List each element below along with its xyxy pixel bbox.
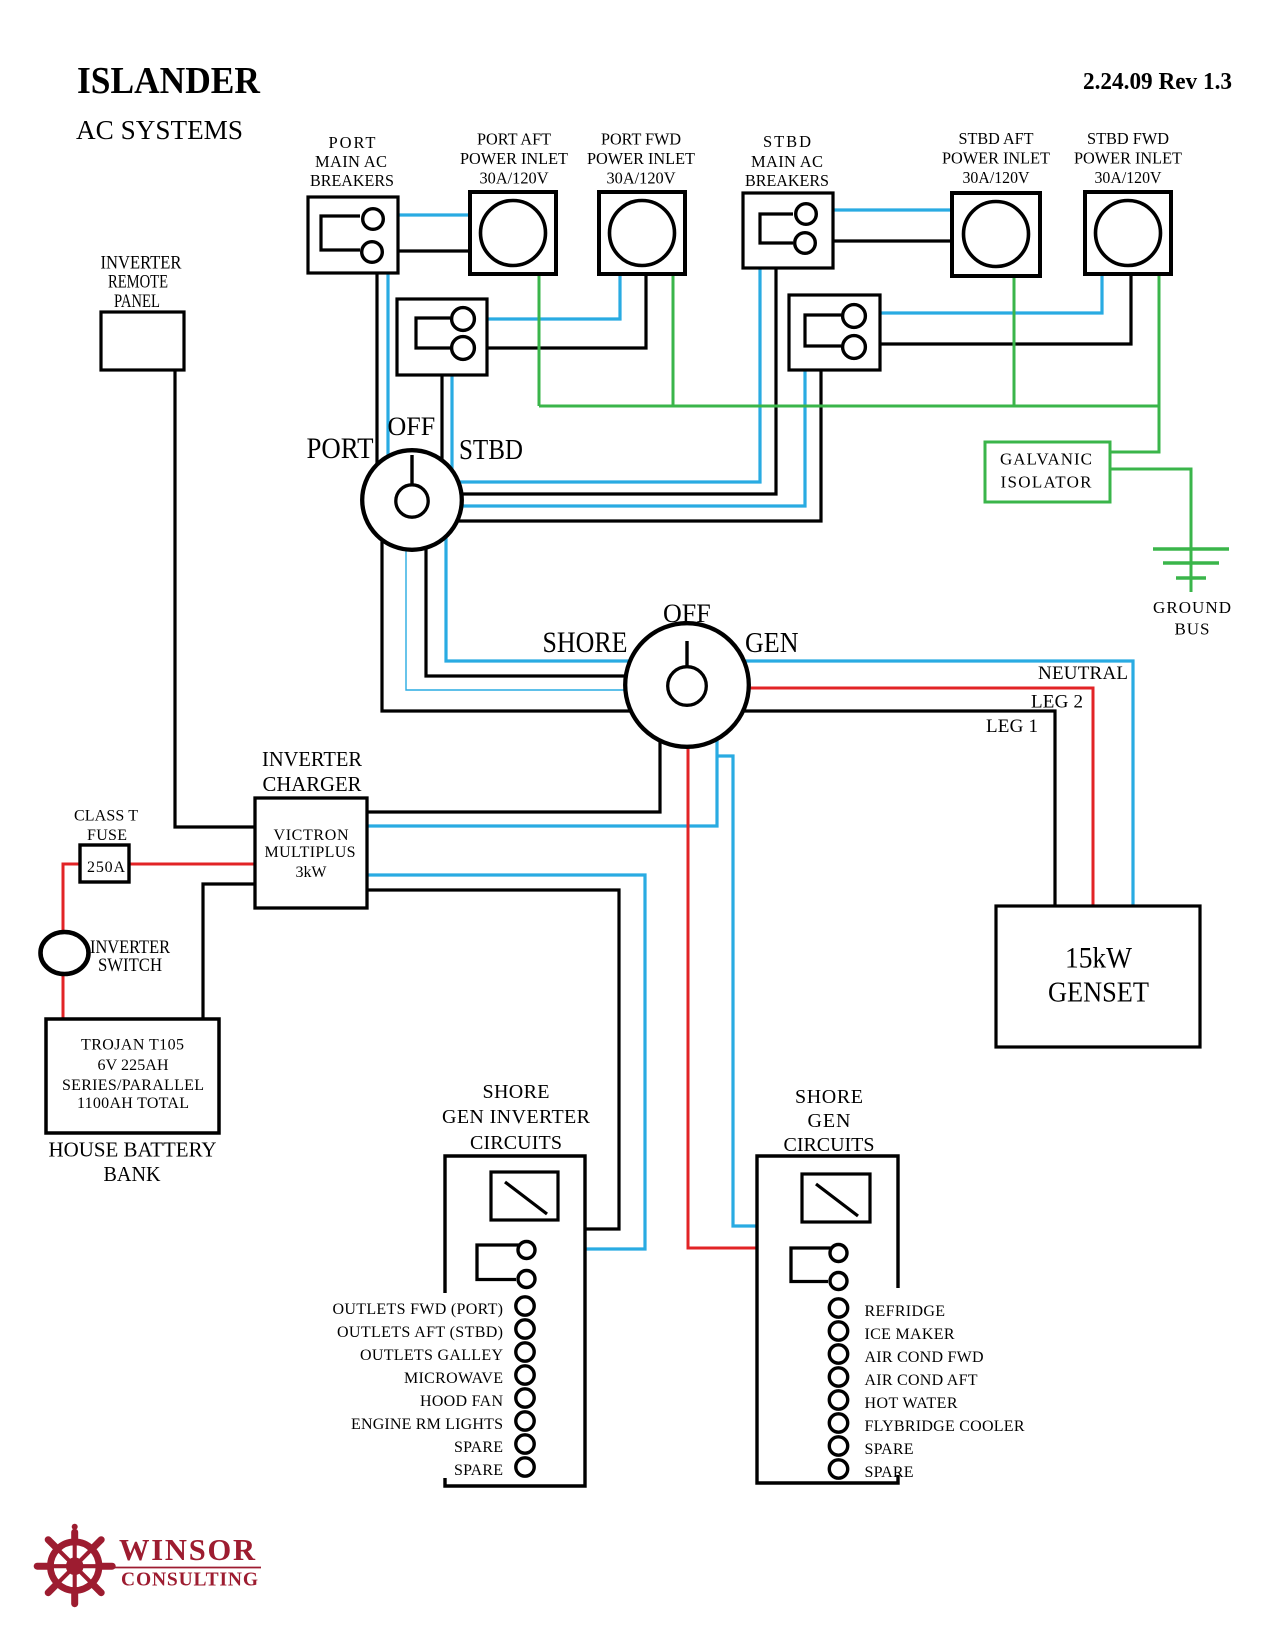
connector: STBD FWD POWER INLET 30A/120V [1074,129,1182,274]
double-pole feed breaker [477,1245,520,1280]
svg-text:GEN: GEN [745,628,799,659]
wire: SW1 to SW2 (cyan neutral) [446,520,687,661]
wire: PORT sub breaker to selector SW1 (cyan neutral) [450,375,453,500]
wire: STBD sub breaker to STBD FWD inlet (black) [880,274,1131,344]
svg-text:POWER INLET: POWER INLET [587,149,695,168]
title ISLANDER [76,60,1232,145]
connector: PORT AFT POWER INLET 30A/120V [460,130,568,275]
svg-text:OUTLETS GALLEY: OUTLETS GALLEY [360,1347,503,1364]
svg-text:SHORE: SHORE [795,1086,863,1108]
wire: STBD AFT inlet ground to green bus [1013,274,1016,406]
svg-text:TROJAN T105: TROJAN T105 [81,1037,184,1054]
svg-text:BREAKERS: BREAKERS [745,171,829,190]
svg-text:GENSET: GENSET [1048,977,1149,1009]
wire: SW2 red leg down to shore gen circuits panel [688,748,759,1248]
breaker CB1a [363,209,384,230]
logo rule [112,1567,261,1569]
svg-text:30A/120V: 30A/120V [480,169,549,188]
branch breakers with labels [333,1297,535,1318]
svg-text:SPARE: SPARE [865,1441,914,1458]
svg-text:30A/120V: 30A/120V [607,169,676,188]
svg-text:POWER INLET: POWER INLET [460,149,568,168]
wire: STBD MAIN breaker 1 to STBD AFT inlet (cyan) [833,208,952,211]
panel: PORT MAIN AC BREAKERS [308,133,398,273]
wire: SW2 to genset NEUTRAL (cyan) [687,661,1133,906]
svg-text:CIRCUITS: CIRCUITS [784,1134,875,1156]
svg-text:REFRIDGE: REFRIDGE [865,1303,946,1320]
wire: inverter charger AC-in neutral to SW2 (cyan) [368,685,717,826]
wire: PORT FWD inlet ground to green bus [672,274,675,406]
wire: inverter charger DC positive through fuse and switch to battery (red) [63,864,255,1018]
main breaker switch [491,1172,558,1220]
wire: SW1 to SW2 (black leg 2) [426,520,687,676]
breaker CB3b [452,337,475,360]
wire: SW2 to genset LEG 2 (red) [687,688,1093,906]
panel: SHORE GEN INVERTER CIRCUITS [333,1081,591,1486]
svg-text:ICE MAKER: ICE MAKER [865,1326,955,1343]
wire: galvanic isolator to ground bus symbol [1111,469,1191,592]
wire: inverter remote panel to inverter charger (black) [175,370,255,827]
svg-text:STBD: STBD [763,132,811,151]
svg-text:NEUTRAL: NEUTRAL [1038,663,1128,684]
svg-text:AIR COND FWD: AIR COND FWD [865,1349,984,1366]
svg-text:OUTLETS FWD (PORT): OUTLETS FWD (PORT) [333,1301,504,1318]
breaker CB2a [796,204,817,225]
panel: SHORE GEN CIRCUITS [757,1086,1025,1483]
wire: cyan neutral branch from SW2 feed down to shore/gen circuits panel [717,756,759,1226]
svg-text:CIRCUITS: CIRCUITS [470,1132,562,1154]
inverter charger U1 VICTRON MULTIPLUS 3kW [255,747,367,908]
svg-text:OUTLETS AFT (STBD): OUTLETS AFT (STBD) [337,1324,503,1341]
svg-text:1100AH TOTAL: 1100AH TOTAL [77,1095,189,1112]
svg-text:STBD FWD: STBD FWD [1087,129,1169,148]
svg-text:REMOTE: REMOTE [108,272,168,293]
Winsor Consulting ship wheel logo [37,1524,112,1604]
svg-text:POWER INLET: POWER INLET [1074,149,1182,168]
breaker CB4b [843,336,866,359]
galvanic isolator [985,442,1110,502]
svg-text:GALVANIC: GALVANIC [1000,450,1092,469]
svg-text:HOOD FAN: HOOD FAN [420,1393,503,1410]
rotary selector switch SW2 SHORE/OFF/GEN [543,599,799,747]
wire: SW1 to STBD sub breaker (black leg) [412,370,821,521]
svg-text:INVERTER: INVERTER [262,747,362,771]
wire: PORT sub breaker to selector SW1 (black leg) [440,375,443,500]
svg-text:INVERTER: INVERTER [101,253,182,274]
wire: PORT sub breaker to PORT FWD inlet (cyan) [487,274,620,319]
svg-text:BANK: BANK [104,1162,161,1186]
svg-text:SWITCH: SWITCH [98,955,162,976]
svg-text:GEN: GEN [808,1110,851,1132]
svg-text:30A/120V: 30A/120V [1095,168,1162,187]
svg-text:250A: 250A [87,859,125,876]
panel outline (left border interrupted by labels) [445,1156,585,1486]
svg-text:MAIN AC: MAIN AC [751,152,823,171]
svg-text:LEG 2: LEG 2 [1031,692,1083,713]
main breaker switch [802,1174,870,1222]
svg-text:SHORE: SHORE [543,626,628,659]
svg-text:2.24.09 Rev 1.3: 2.24.09 Rev 1.3 [1083,69,1232,95]
breaker CB3a [452,308,475,331]
inverter remote panel [101,253,185,371]
svg-text:SPARE: SPARE [865,1464,914,1481]
fuse F1 CLASS T 250A [74,808,138,883]
panel outline (right border interrupted by labels) [757,1156,898,1483]
wire: PORT MAIN breaker 2 to PORT AFT inlet (black) [398,249,470,252]
svg-text:MAIN AC: MAIN AC [315,152,387,171]
svg-text:HOT WATER: HOT WATER [865,1395,958,1412]
wire: SW1 to STBD MAIN panel (cyan neutral) [412,268,760,482]
svg-text:PORT: PORT [307,432,374,465]
svg-text:POWER INLET: POWER INLET [942,149,1050,168]
svg-text:6V 225AH: 6V 225AH [98,1057,169,1074]
ground bus symbol [1153,549,1231,639]
svg-text:ISOLATOR: ISOLATOR [1001,473,1093,492]
wire: STBD sub breaker to STBD FWD inlet (cyan) [880,274,1102,313]
svg-text:CONSULTING: CONSULTING [121,1570,258,1591]
svg-text:30A/120V: 30A/120V [963,168,1030,187]
svg-text:ISLANDER: ISLANDER [77,60,261,102]
wire: green ground bus horizontal [539,405,1159,408]
svg-text:GEN INVERTER: GEN INVERTER [442,1106,591,1128]
double-pole feed breaker [791,1248,832,1282]
svg-text:PANEL: PANEL [114,291,160,312]
wire: SW1 to SW2 thin cyan neutral [406,500,687,690]
wire: STBD FWD inlet ground down to galvanic isolator [1111,274,1159,452]
wire: PORT sub breaker to PORT FWD inlet (black) [487,274,646,348]
svg-text:STBD AFT: STBD AFT [959,129,1034,148]
svg-text:GROUND: GROUND [1153,598,1231,617]
battery BT1 house battery bank [46,1019,219,1186]
wire: SW1 to SW2 (black leg 1) continues to genset LEG 1 [382,500,1055,906]
svg-text:HOUSE BATTERY: HOUSE BATTERY [49,1138,217,1162]
wire: PORT AFT inlet ground to green bus [538,274,541,406]
connector: STBD AFT POWER INLET 30A/120V [942,129,1050,276]
svg-text:AIR COND AFT: AIR COND AFT [865,1372,978,1389]
generator G1 15kW GENSET [996,906,1200,1047]
wire: PORT MAIN breaker 1 to PORT AFT inlet (cyan) [398,213,470,216]
wire: SW1 to STBD sub breaker (cyan neutral) [412,370,805,506]
panel: PORT sub breakers [397,299,487,375]
svg-text:BREAKERS: BREAKERS [310,171,394,190]
svg-text:VICTRON: VICTRON [274,827,349,844]
wire: STBD MAIN breaker 2 to STBD AFT inlet (black) [833,239,952,242]
panel: STBD MAIN AC BREAKERS [743,132,833,268]
rotary selector switch SW1 PORT/OFF/STBD [307,412,524,550]
breaker CB1b [362,242,383,263]
svg-text:AC SYSTEMS: AC SYSTEMS [76,114,243,145]
wire: inverter charger AC-out leg to inverter circuits panel (black) [368,890,619,1229]
svg-text:CHARGER: CHARGER [263,772,362,796]
svg-text:SHORE: SHORE [483,1081,550,1103]
svg-text:FLYBRIDGE COOLER: FLYBRIDGE COOLER [865,1418,1025,1435]
svg-text:PORT FWD: PORT FWD [601,130,681,149]
svg-text:BUS: BUS [1175,620,1210,639]
svg-text:PORT AFT: PORT AFT [477,130,551,149]
wire: inverter charger DC negative to battery (black) [203,884,255,1018]
breaker CB4a [843,305,866,328]
svg-text:OFF: OFF [388,412,436,441]
wire: PORT MAIN panel to selector SW1 (black leg) [375,273,378,500]
svg-text:MULTIPLUS: MULTIPLUS [265,844,356,861]
svg-text:15kW: 15kW [1065,942,1133,975]
panel: STBD sub breakers [789,295,880,370]
svg-text:SERIES/PARALLEL: SERIES/PARALLEL [62,1077,204,1094]
breaker CB2b [795,233,816,254]
svg-text:ENGINE RM LIGHTS: ENGINE RM LIGHTS [351,1416,503,1433]
svg-text:STBD: STBD [459,434,523,466]
svg-text:SPARE: SPARE [454,1439,503,1456]
svg-text:SPARE: SPARE [454,1462,503,1479]
inverter switch S1 [41,932,171,976]
svg-text:3kW: 3kW [296,864,328,881]
wire: SW1 to STBD MAIN panel (black leg) [412,268,776,494]
wire: inverter charger AC-out neutral to inverter circuits panel (cyan) [368,875,645,1249]
branch breakers with labels [829,1299,945,1320]
svg-text:FUSE: FUSE [87,827,127,844]
connector: PORT FWD POWER INLET 30A/120V [587,130,695,275]
svg-text:CLASS T: CLASS T [74,808,138,825]
svg-text:LEG 1: LEG 1 [986,716,1038,737]
svg-text:MICROWAVE: MICROWAVE [404,1370,503,1387]
wire: inverter charger AC-in leg to SW2 (black) [368,685,660,812]
wire: PORT MAIN panel to selector SW1 (cyan neutral) [386,273,389,500]
